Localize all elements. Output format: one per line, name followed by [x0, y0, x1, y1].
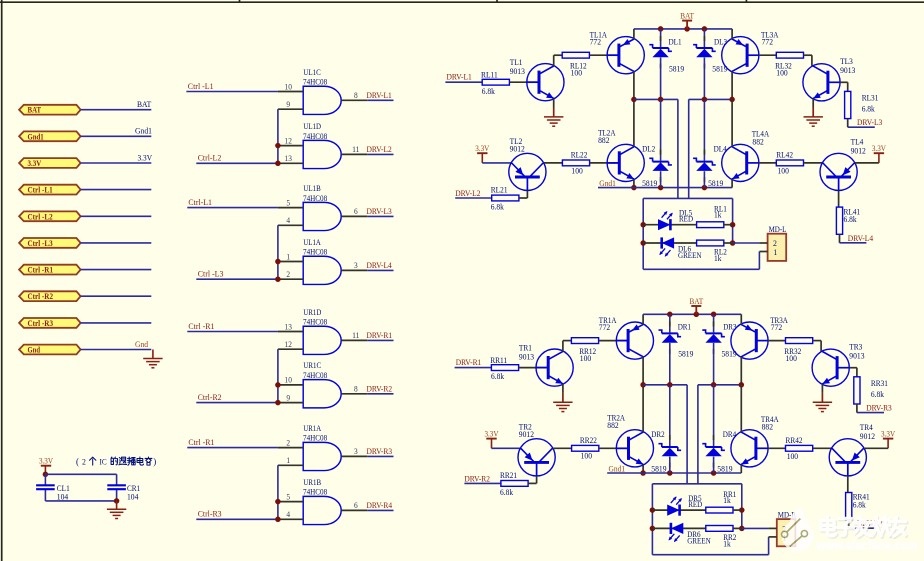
resistor RR12 100 — [571, 338, 598, 344]
wire Ctrl -L3 — [196, 278, 278, 280]
wire LED frame right — [741, 484, 743, 529]
svg-text:74HC08: 74HC08 — [303, 318, 327, 327]
svg-text:DRV-L1: DRV-L1 — [447, 73, 472, 82]
wire Ctrl-L1 — [187, 207, 278, 209]
resistor RR22 100 — [572, 445, 599, 451]
svg-text:DL2: DL2 — [642, 145, 655, 154]
svg-text:www.elecfans.com: www.elecfans.com — [816, 538, 918, 553]
wire to MD-L pin 2 — [733, 242, 760, 244]
svg-text:6.8k: 6.8k — [482, 87, 496, 96]
wire DL4 anode — [703, 171, 705, 187]
wire from connector Gnd1 — [81, 135, 152, 137]
wire TR3A collector to mid rail — [740, 357, 742, 385]
diode DL1 5819 — [653, 47, 669, 49]
wire TR4A base to RR42 — [768, 447, 786, 449]
junction — [640, 382, 646, 388]
svg-text:6.8k: 6.8k — [500, 488, 514, 497]
wire Gnd1 rail — [607, 472, 741, 474]
svg-text:772: 772 — [599, 323, 610, 332]
transistor TR3 9013 — [812, 349, 849, 386]
junction — [667, 382, 673, 388]
wire Ctrl-R2 — [196, 402, 278, 404]
svg-text:9012: 9012 — [860, 432, 875, 441]
capacitor CR1 — [107, 484, 126, 486]
MD-L pin 2 — [759, 242, 767, 244]
svg-text:9013: 9013 — [519, 352, 534, 361]
wire 3.3V to TR2 emitter — [492, 447, 521, 449]
svg-text:DRV-R4: DRV-R4 — [367, 501, 393, 510]
wire BAT rail — [634, 28, 732, 30]
wire TL1 emitter to ground — [553, 99, 555, 108]
svg-text:9012: 9012 — [519, 430, 534, 439]
sheet border left line — [1, 0, 3, 561]
wire stub down to ground — [152, 350, 154, 359]
svg-text:882: 882 — [598, 136, 609, 145]
svg-text:8: 8 — [354, 385, 358, 394]
connector Ctrl -L3 — [19, 238, 81, 248]
svg-text:RL31: RL31 — [862, 93, 879, 102]
wire TL4 base down to RL41 — [838, 177, 840, 191]
junction — [729, 97, 735, 103]
junction — [275, 276, 281, 282]
svg-text:Ctrl -L3: Ctrl -L3 — [198, 270, 224, 279]
junction — [702, 97, 708, 103]
wire RR21 to TR2 base — [528, 482, 537, 484]
wire RL11 to TL1 base — [509, 81, 539, 83]
svg-text:DRV-R2: DRV-R2 — [464, 474, 490, 483]
svg-text:3.3V: 3.3V — [138, 152, 153, 162]
svg-text:IC: IC — [100, 456, 107, 466]
wire decoupling top — [45, 473, 116, 475]
svg-text:TR3: TR3 — [849, 342, 862, 351]
svg-text:3: 3 — [354, 447, 358, 456]
connector MD-L — [768, 234, 787, 261]
wire RL22 to TL2A base — [590, 162, 619, 164]
svg-text:DR2: DR2 — [651, 430, 664, 439]
diode DL2 5819 — [653, 161, 669, 163]
svg-text:5819: 5819 — [678, 350, 693, 359]
svg-text:1: 1 — [286, 456, 290, 465]
svg-text:6.8k: 6.8k — [871, 390, 885, 399]
wire bridge output right drop — [697, 385, 699, 484]
transistor TR4A 882 — [731, 430, 768, 467]
watermark logo pins — [786, 519, 800, 533]
resistor RR31 6.8k — [854, 377, 860, 404]
wire LED frame top — [643, 197, 732, 199]
svg-text:3.3V: 3.3V — [28, 159, 42, 168]
svg-text:3.3V: 3.3V — [475, 144, 489, 153]
junction — [730, 240, 736, 246]
wire CR1 leads — [116, 474, 118, 485]
wire BAT rail — [643, 313, 741, 315]
svg-text:9012: 9012 — [510, 145, 525, 154]
wire RR12 to TR1A base — [599, 340, 629, 342]
wire DL6 row — [643, 242, 696, 244]
svg-text:100: 100 — [778, 167, 789, 176]
junction — [275, 259, 281, 265]
svg-text:DRV-L1: DRV-L1 — [367, 91, 392, 100]
wire TR1A emitter to BAT rail — [642, 314, 644, 324]
wire mid rail right — [698, 384, 741, 386]
AND gate UR1C 74HC08 — [303, 380, 341, 408]
svg-text:6: 6 — [354, 207, 358, 216]
wire DR2 anode — [669, 457, 671, 473]
junction — [684, 26, 690, 32]
svg-text:12: 12 — [285, 340, 292, 349]
svg-text:10: 10 — [285, 82, 292, 91]
junction — [667, 312, 673, 318]
wire DL3 cathode — [703, 29, 705, 47]
junction — [640, 470, 646, 476]
svg-text:RR11: RR11 — [490, 356, 507, 365]
LED DL5 RED — [658, 219, 670, 230]
svg-text:1k: 1k — [714, 211, 722, 220]
diode DR3 5819 — [706, 332, 722, 334]
wire DR3 anode — [713, 343, 715, 385]
svg-text:100: 100 — [580, 354, 591, 363]
svg-text:5819: 5819 — [651, 465, 666, 474]
wire DL4 cathode — [703, 99, 705, 160]
wire DL1 anode — [660, 58, 662, 100]
capacitor CL1 — [36, 484, 55, 486]
svg-text:TR1: TR1 — [519, 344, 532, 353]
wire RL21 to TL2 base — [519, 197, 528, 199]
svg-text:RL11: RL11 — [481, 71, 498, 80]
svg-text:RED: RED — [679, 215, 693, 224]
wire from connector Ctrl -R1 — [81, 269, 152, 271]
junction — [275, 161, 281, 167]
wire from connector Ctrl -R3 — [81, 322, 152, 324]
junction — [702, 26, 708, 32]
svg-text:UL1A: UL1A — [303, 238, 320, 247]
svg-text:104: 104 — [57, 493, 69, 502]
wire RR31 to DRV-R3 — [856, 404, 858, 413]
svg-text:Gnd1: Gnd1 — [609, 464, 626, 473]
transistor TR4 9012 — [829, 439, 866, 476]
svg-text:BAT: BAT — [689, 297, 703, 306]
transistor TR2 9012 — [518, 439, 555, 476]
transistor TL3A 772 — [722, 37, 759, 74]
svg-text:3.3V: 3.3V — [39, 457, 53, 466]
svg-text:DRV-L3: DRV-L3 — [367, 207, 392, 216]
transistor TR2A 882 — [616, 430, 653, 467]
svg-text:74HC08: 74HC08 — [303, 248, 327, 257]
wire decoupling bottom — [45, 500, 116, 502]
svg-text:4: 4 — [286, 510, 290, 519]
wire TL4A collector to mid rail — [731, 99, 733, 146]
junction — [631, 185, 637, 191]
wire from connector Ctrl -L2 — [81, 215, 152, 217]
AND gate UL1B 74HC08 — [303, 202, 341, 230]
AND gate UL1D 74HC08 — [303, 140, 341, 168]
svg-text:12: 12 — [285, 136, 292, 145]
wire DL2 cathode — [660, 99, 662, 160]
LED DR5 RED — [667, 505, 679, 516]
wire 3.3V to TL2 emitter — [482, 162, 511, 164]
junction — [667, 470, 673, 476]
svg-text:Gnd: Gnd — [28, 346, 41, 355]
wire TR1 collector — [562, 341, 564, 352]
wire TR2A collector to mid rail — [642, 385, 644, 432]
connector Ctrl -R2 — [19, 291, 81, 301]
resistor RL2 1k — [697, 240, 724, 246]
junction — [275, 400, 281, 406]
svg-text:Ctrl -R3: Ctrl -R3 — [28, 319, 54, 328]
wire TL4A base to RL42 — [759, 162, 777, 164]
sheet border tick 3 — [745, 0, 747, 2]
wire RL31 to DRV-L3 — [847, 119, 849, 128]
watermark text dianzifashaoyou — [822, 518, 837, 537]
svg-text:Gnd1: Gnd1 — [599, 179, 616, 188]
wire RL42 to TL4 collector — [804, 162, 823, 164]
AND gate UL1A 74HC08 — [303, 256, 341, 284]
wire TL3 base to RL31 — [840, 81, 848, 83]
wire DR3 cathode — [713, 314, 715, 332]
svg-text:DRV-L3: DRV-L3 — [857, 118, 882, 127]
svg-text:8: 8 — [354, 91, 358, 100]
wire RL32 to TL3 collector — [804, 54, 812, 56]
svg-text:5819: 5819 — [669, 64, 684, 73]
svg-text:6.8k: 6.8k — [853, 501, 867, 510]
wire vertical branch between gate inputs — [277, 465, 279, 519]
wire bridge output left drop — [686, 385, 688, 484]
svg-text:RL21: RL21 — [491, 186, 508, 195]
wire TR3A base to RR32 — [768, 340, 786, 342]
svg-text:6.8k: 6.8k — [844, 215, 858, 224]
ground at TL3 — [804, 116, 823, 118]
svg-text:RED: RED — [688, 500, 702, 509]
connector MD-R — [777, 519, 796, 546]
svg-text:3: 3 — [354, 261, 358, 270]
wire TR2 collector to RR22 — [553, 447, 572, 449]
transistor TR1 9013 — [536, 349, 573, 386]
svg-text:74HC08: 74HC08 — [303, 78, 327, 87]
svg-text:5: 5 — [286, 492, 290, 501]
svg-text:74HC08: 74HC08 — [303, 371, 327, 380]
wire from connector BAT — [81, 109, 152, 111]
svg-text:Gnd1: Gnd1 — [135, 126, 152, 136]
junction — [711, 470, 717, 476]
transistor TL2A 882 — [607, 144, 644, 181]
svg-text:UR1C: UR1C — [303, 361, 321, 370]
transistor TL1 9013 — [527, 64, 564, 101]
resistor RR21 6.8k — [501, 481, 528, 487]
AND gate UL1C 74HC08 — [303, 86, 341, 114]
svg-text:Ctrl-L1: Ctrl-L1 — [188, 198, 212, 207]
svg-text:RR22: RR22 — [580, 436, 597, 445]
wire TL2 base down — [526, 177, 528, 191]
svg-text:13: 13 — [285, 322, 292, 331]
ground at TR1 — [553, 401, 572, 403]
wire Ctrl -L1 — [186, 91, 278, 93]
wire to MD-R pin 2 — [742, 527, 769, 529]
wire RR11 to TR1 base — [519, 367, 549, 369]
diode DR1 5819 — [662, 332, 678, 334]
wire TR3 base to RR31 — [849, 367, 857, 369]
LED DR6 GREEN — [671, 523, 683, 534]
wire DRV-R1 — [455, 367, 492, 369]
svg-text:5819: 5819 — [717, 465, 732, 474]
resistor RR32 100 — [786, 338, 813, 344]
svg-text:5: 5 — [286, 198, 290, 207]
svg-text:6.8k: 6.8k — [491, 202, 505, 211]
connector Ctrl -L2 — [19, 211, 81, 221]
wire Ctrl -R1 — [187, 447, 278, 449]
wire TR3 emitter to ground — [821, 384, 823, 393]
watermark logo circle — [782, 507, 814, 551]
wire from connector Ctrl -R2 — [81, 295, 152, 297]
junction — [658, 185, 664, 191]
svg-text:RL42: RL42 — [776, 151, 793, 160]
svg-text:DRV-L2: DRV-L2 — [367, 145, 392, 154]
svg-text:100: 100 — [571, 166, 582, 175]
junction — [275, 143, 281, 149]
sheet border tick 1 — [239, 0, 241, 2]
svg-text:1: 1 — [286, 252, 290, 261]
wire DR2 cathode — [669, 385, 671, 446]
svg-text:Ctrl -R1: Ctrl -R1 — [188, 322, 214, 331]
AND gate UR1A 74HC08 — [303, 442, 341, 470]
wire TL2A collector to mid rail — [633, 99, 635, 146]
connector Gnd1 — [19, 131, 81, 141]
wire Ctrl-L2 — [196, 162, 278, 164]
wire TL3 emitter to ground — [812, 99, 814, 108]
svg-text:74HC08: 74HC08 — [303, 488, 327, 497]
svg-text:GREEN: GREEN — [678, 251, 702, 260]
ground symbol at decoupling caps — [116, 501, 118, 509]
sheet border tick 2 — [496, 0, 498, 2]
connector BAT — [19, 105, 81, 115]
resistor RL22 100 — [562, 160, 589, 166]
svg-text:3.3V: 3.3V — [484, 430, 498, 439]
wire DL5 row — [643, 224, 696, 226]
svg-text:MD-L: MD-L — [769, 225, 787, 234]
MD-R pin 2 — [769, 527, 777, 529]
svg-text:UL1B: UL1B — [303, 184, 321, 193]
junction — [43, 472, 49, 478]
wire TL1A collector to mid rail — [633, 71, 635, 99]
resistor RR1 1k — [706, 507, 733, 513]
svg-text:DRV-R3: DRV-R3 — [866, 404, 892, 413]
diode DR4 5819 — [706, 446, 722, 448]
connector 3.3V — [19, 158, 81, 168]
wire mid rail left — [634, 98, 678, 100]
junction — [711, 312, 717, 318]
transistor TR3A 772 — [731, 322, 768, 359]
svg-text:1k: 1k — [723, 496, 731, 505]
svg-text:9012: 9012 — [851, 147, 866, 156]
svg-text:11: 11 — [352, 331, 359, 340]
svg-text:1k: 1k — [723, 539, 731, 548]
wire DR5 row — [652, 509, 705, 511]
svg-text:GREEN: GREEN — [687, 536, 711, 545]
svg-text:772: 772 — [762, 38, 773, 47]
wire Ctrl -R1 — [187, 331, 278, 333]
svg-text:9013: 9013 — [849, 352, 864, 361]
wire TR2 base down — [536, 462, 538, 476]
svg-text:DRV-R1: DRV-R1 — [367, 331, 393, 340]
transistor TL4 9012 — [820, 153, 857, 190]
svg-text:772: 772 — [590, 38, 601, 47]
svg-text:RR21: RR21 — [500, 471, 517, 480]
junction — [275, 499, 281, 505]
sheet border top line — [0, 1, 924, 3]
wire vertical branch between gate inputs — [277, 225, 279, 279]
wire Gnd1 rail — [598, 187, 732, 189]
svg-text:TL4: TL4 — [851, 137, 864, 146]
junction — [658, 26, 664, 32]
wire DR1 cathode — [669, 314, 671, 332]
resistor RR41 6.8k — [846, 493, 852, 520]
svg-text:RR42: RR42 — [786, 436, 803, 445]
svg-text:UR1B: UR1B — [303, 478, 321, 487]
svg-text:DRV-L4: DRV-L4 — [848, 234, 874, 243]
junction — [114, 498, 120, 504]
junction — [702, 185, 708, 191]
wire DRV-L1 — [445, 81, 482, 83]
junction — [275, 517, 281, 523]
wire RR41 to DRV-R4 — [848, 520, 850, 529]
wire RL12 to TL1A base — [589, 54, 619, 56]
resistor RL12 100 — [562, 52, 589, 58]
svg-text:BAT: BAT — [680, 12, 694, 21]
wire TL2A emitter to Gnd1 rail — [633, 179, 635, 187]
svg-text:DL1: DL1 — [669, 37, 682, 46]
svg-text:100: 100 — [787, 452, 798, 461]
junction — [275, 382, 281, 388]
svg-text:UR1D: UR1D — [303, 308, 321, 317]
wire from connector Ctrl -L3 — [81, 242, 152, 244]
wire from connector 3.3V — [81, 162, 152, 164]
diode DR2 5819 — [662, 446, 678, 448]
wire DR1 anode — [669, 343, 671, 385]
junction — [640, 222, 646, 228]
resistor RL41 6.8k — [836, 207, 842, 234]
wire RR22 to TR2A base — [599, 447, 628, 449]
junction — [739, 526, 745, 532]
svg-text:9: 9 — [286, 393, 290, 402]
ground at TR3 — [813, 401, 832, 403]
svg-text:TL3: TL3 — [840, 57, 853, 66]
svg-text:772: 772 — [771, 323, 782, 332]
svg-text:TR4: TR4 — [860, 423, 874, 432]
wire TL2 collector to RL22 — [544, 162, 563, 164]
svg-text:100: 100 — [571, 69, 582, 78]
junction — [650, 526, 656, 532]
svg-text:74HC08: 74HC08 — [303, 132, 327, 141]
wire TR4A collector to mid rail — [740, 385, 742, 432]
connector Ctrl -R3 — [19, 318, 81, 328]
svg-text:Ctrl -L2: Ctrl -L2 — [28, 212, 53, 221]
svg-text:5819: 5819 — [642, 179, 657, 188]
svg-text:UL1C: UL1C — [303, 68, 321, 77]
transistor TR1A 772 — [616, 322, 653, 359]
transistor TL3 9013 — [803, 64, 840, 101]
AND gate UR1D 74HC08 — [303, 326, 341, 354]
svg-text:882: 882 — [762, 423, 773, 432]
wire TR2A emitter to Gnd1 rail — [642, 465, 644, 473]
wire TR4 base down to RR41 — [847, 462, 849, 476]
svg-text:Ctrl -L3: Ctrl -L3 — [28, 239, 53, 248]
resistor RL42 100 — [776, 160, 803, 166]
wire RL41 to DRV-L4 — [839, 234, 841, 243]
svg-text:6: 6 — [354, 501, 358, 510]
transistor TL4A 882 — [722, 144, 759, 181]
svg-text:DRV-R3: DRV-R3 — [367, 447, 393, 456]
resistor RR2 1k — [706, 526, 733, 532]
ground symbol at Gnd connector — [143, 358, 162, 360]
wire TR1A collector to mid rail — [642, 357, 644, 385]
